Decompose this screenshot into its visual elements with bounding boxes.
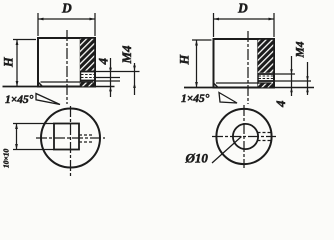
vertical centerline of body xyxy=(66,30,68,104)
svg-text:4: 4 xyxy=(273,100,288,108)
dim 4 arrows right xyxy=(306,76,309,92)
10x10 dimension line xyxy=(16,124,18,150)
svg-text:D: D xyxy=(61,1,72,16)
section boundary line right xyxy=(257,39,259,88)
leader line for d10 xyxy=(212,137,242,164)
dimension M4 (right fig) line xyxy=(291,56,293,96)
dimension H line with arrows xyxy=(16,40,18,87)
M4 hole bottom line xyxy=(81,80,96,82)
dimension H (left fig) extension lines xyxy=(13,39,36,41)
svg-text:1×45°: 1×45° xyxy=(181,93,210,105)
extension hole top right xyxy=(274,73,295,75)
hatch lower band right xyxy=(258,83,273,87)
svg-text:Ø10: Ø10 xyxy=(185,151,209,166)
chamfer corner left xyxy=(38,82,43,87)
dimension M4 (left fig) line xyxy=(134,63,136,95)
dim M4 arrows right xyxy=(290,69,293,92)
horizontal centerline top view xyxy=(36,137,105,139)
svg-text:H: H xyxy=(2,56,16,68)
extension line bottom face right xyxy=(95,86,115,88)
vertical centerline of body right xyxy=(247,31,249,104)
extension line hole bottom xyxy=(95,80,120,82)
svg-text:M4: M4 xyxy=(119,45,134,65)
chamfer edge line xyxy=(41,81,94,83)
svg-text:H: H xyxy=(178,54,192,66)
square hole 10x10 xyxy=(54,124,79,150)
chamfer leader triangle (right fig) xyxy=(219,93,237,104)
svg-text:10×10: 10×10 xyxy=(2,148,11,168)
thread lines inside hole right xyxy=(259,76,275,79)
dimension D (right fig) extension lines xyxy=(214,13,275,37)
M4 hole top line xyxy=(81,71,96,73)
horizontal centerline top view right xyxy=(212,136,276,138)
thread lines inside hole xyxy=(81,75,95,78)
svg-text:1×45°: 1×45° xyxy=(5,94,34,106)
dimension H line right xyxy=(196,40,198,88)
10x10 extension lines xyxy=(13,124,54,150)
svg-text:D: D xyxy=(237,1,248,16)
hidden M4 hole dashes xyxy=(79,135,93,142)
top view outer circle right xyxy=(216,109,271,164)
M4 hole top line right xyxy=(258,73,274,75)
svg-text:M4: M4 xyxy=(295,41,307,58)
M4 hole bottom line right xyxy=(258,80,274,82)
dimension D line right xyxy=(214,18,275,20)
body outline (cylinder front view) xyxy=(38,38,95,87)
chamfer corner right (right fig) xyxy=(270,83,275,88)
section boundary / cavity wall line xyxy=(80,38,82,87)
top view outer circle xyxy=(41,109,100,168)
hatch lower band xyxy=(80,82,94,86)
dimension D line with arrows xyxy=(38,18,95,20)
dimension 4 (left fig) line xyxy=(110,58,112,97)
top view inner circle (hole d10) xyxy=(233,124,258,149)
chamfer corner left (right fig) xyxy=(214,83,219,88)
vertical centerline top view xyxy=(70,106,72,176)
extension line hole axis xyxy=(95,77,120,79)
extension bottom face right fig xyxy=(274,87,314,89)
hatch upper band right xyxy=(258,40,273,73)
hidden M4 hole dashes right xyxy=(258,133,273,141)
dim 4 arrows xyxy=(109,68,112,92)
chamfer edge line right xyxy=(216,82,272,84)
vertical centerline top view right xyxy=(243,105,245,168)
hatch upper band xyxy=(80,39,94,71)
dimension 4 (right fig) line xyxy=(307,62,309,95)
extension hole bottom right xyxy=(274,80,311,82)
chamfer corner right xyxy=(91,82,96,87)
dimension D (left fig) extension lines xyxy=(38,13,95,36)
body outline (cylinder front view, right) xyxy=(214,39,275,88)
dimension H (right fig) extension lines xyxy=(192,39,212,41)
chamfer leader triangle (left fig) xyxy=(36,94,60,105)
extension line hole top xyxy=(95,71,140,73)
svg-text:4: 4 xyxy=(96,58,111,66)
dim M4 arrows xyxy=(133,66,136,88)
